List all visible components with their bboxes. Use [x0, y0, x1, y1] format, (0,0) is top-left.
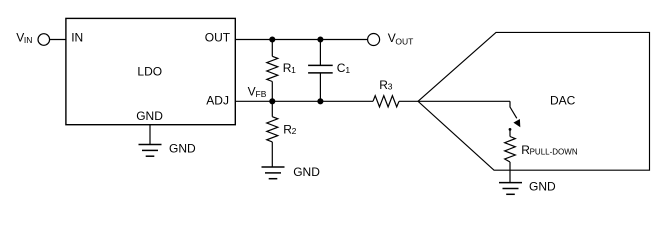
- junction R1 top: [270, 37, 275, 42]
- wire DAC input internal: [418, 100, 510, 102]
- resistor R3: [373, 78, 399, 107]
- LDO U1: [66, 18, 235, 124]
- node VIN terminal: [16, 31, 49, 46]
- ground (RPULL-DOWN): [499, 179, 556, 194]
- svg-text:PULL-DOWN: PULL-DOWN: [530, 147, 578, 156]
- svg-text:OUT: OUT: [395, 37, 413, 47]
- wire R3 to DAC: [399, 100, 418, 102]
- svg-text:GND: GND: [136, 109, 163, 123]
- wire LDO GND pin to ground: [149, 125, 151, 145]
- ground (R2): [262, 165, 321, 179]
- svg-text:1: 1: [345, 65, 350, 75]
- svg-text:ADJ: ADJ: [206, 94, 229, 108]
- junction C1 bottom: [318, 99, 323, 104]
- resistor R1: [267, 40, 296, 102]
- svg-text:GND: GND: [169, 142, 196, 156]
- DAC U2: [418, 32, 650, 170]
- ground (LDO): [139, 142, 197, 157]
- junction C1 top: [318, 37, 323, 42]
- svg-text:IN: IN: [24, 35, 33, 45]
- arrow to pull-down: [510, 101, 520, 127]
- wire ADJ net (VFB): [235, 100, 373, 102]
- svg-text:DAC: DAC: [550, 93, 576, 107]
- svg-text:FB: FB: [256, 89, 267, 99]
- wire OUT net: [235, 39, 367, 41]
- svg-text:OUT: OUT: [205, 31, 231, 45]
- capacitor C1: [308, 40, 350, 102]
- resistor R2: [267, 101, 297, 167]
- junction R1 bottom: [270, 99, 275, 104]
- svg-text:GND: GND: [293, 165, 320, 179]
- node VOUT terminal: [368, 31, 414, 47]
- svg-text:3: 3: [388, 82, 393, 92]
- node VFB label: [248, 84, 267, 99]
- svg-text:IN: IN: [71, 31, 83, 45]
- svg-text:LDO: LDO: [137, 65, 162, 79]
- svg-text:V: V: [248, 84, 256, 98]
- wire VIN to LDO IN: [50, 39, 66, 41]
- svg-text:GND: GND: [529, 179, 556, 193]
- svg-text:2: 2: [292, 126, 297, 136]
- resistor RPULL-DOWN: [505, 128, 578, 183]
- svg-text:1: 1: [291, 65, 296, 75]
